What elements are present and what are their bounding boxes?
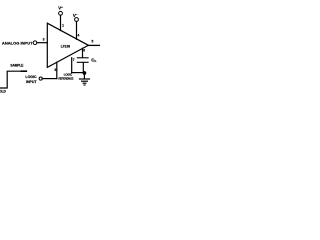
svg-text:7: 7: [73, 58, 75, 62]
svg-text:HOLD: HOLD: [0, 89, 6, 93]
svg-text:LOGIC: LOGIC: [64, 73, 72, 77]
svg-text:V+: V+: [58, 5, 63, 10]
svg-text:1: 1: [62, 24, 64, 28]
analog input terminal: [33, 41, 37, 45]
op-amp U1 LF198 triangle: [47, 23, 88, 67]
wire pin 8 vertical: [56, 62, 58, 79]
capacitor Ch bottom plate: [77, 61, 88, 63]
wire pin 7 to ground node: [72, 72, 85, 74]
svg-text:LF198: LF198: [61, 44, 70, 48]
V+ terminal: [59, 11, 63, 15]
wire V- to pin 4: [76, 22, 78, 40]
wire pin 7 vertical: [71, 58, 73, 73]
svg-text:LOGIC: LOGIC: [25, 75, 37, 79]
svg-text:Ch: Ch: [91, 58, 96, 64]
svg-text:SAMPLE: SAMPLE: [10, 64, 23, 68]
wire logic input horizontal: [42, 78, 57, 80]
svg-text:6: 6: [83, 49, 85, 53]
capacitor Ch top plate: [77, 57, 88, 59]
node: capacitor/ground junction dot: [83, 71, 87, 75]
wire analog input to pin 3: [37, 42, 47, 44]
wire node to ground: [83, 73, 85, 79]
svg-text:REFERENCE: REFERENCE: [58, 76, 73, 80]
ground symbol: [80, 78, 90, 80]
sample/hold logic waveform: [0, 71, 22, 88]
svg-text:4: 4: [77, 33, 79, 37]
wire capacitor to ground node: [82, 63, 84, 73]
V- terminal: [75, 18, 79, 22]
svg-text:8: 8: [54, 68, 56, 72]
svg-text:5: 5: [91, 40, 93, 44]
wire pin 6 to capacitor: [82, 48, 84, 57]
wire output pin 5: [88, 44, 100, 46]
wire V+ to pin 1: [60, 15, 62, 30]
svg-text:ANALOG INPUT: ANALOG INPUT: [2, 40, 33, 45]
logic input terminal: [39, 77, 42, 80]
svg-text:3: 3: [43, 37, 45, 41]
svg-text:V−: V−: [73, 13, 78, 18]
svg-text:INPUT: INPUT: [26, 80, 37, 84]
